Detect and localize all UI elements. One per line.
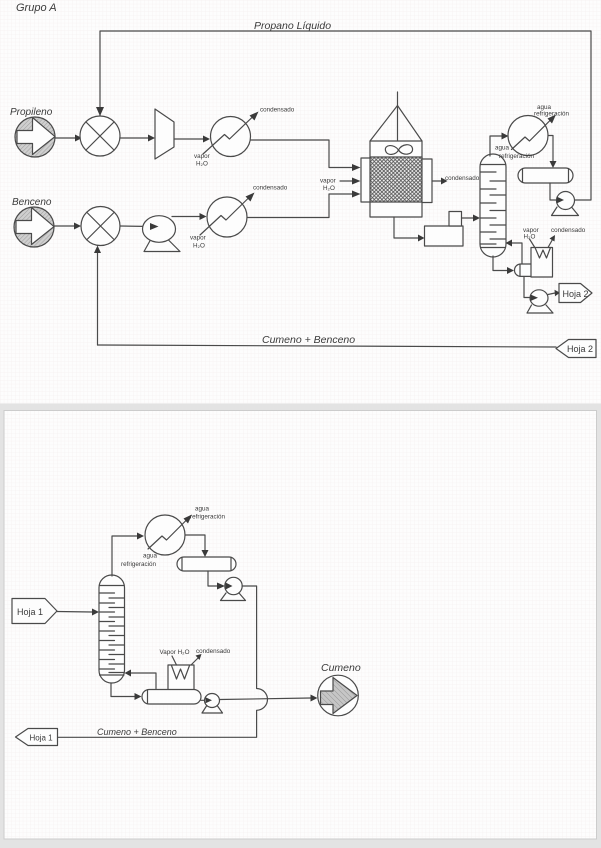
reactor R1 roof: [370, 106, 422, 142]
wire V1 to column T1 feed: [462, 217, 474, 219]
off-page connector Hoja 1 (in): [12, 599, 57, 624]
svg-text:Benceno: Benceno: [12, 197, 52, 208]
wire mixer M1 to compressor K1: [120, 137, 148, 139]
pump P2 stand: [552, 207, 579, 216]
pump P4 stand: [221, 593, 246, 601]
svg-text:Cumeno: Cumeno: [321, 662, 361, 674]
wire product line to Cumeno: [220, 698, 311, 700]
wire recycle into mixer M2 from below: [97, 253, 99, 345]
page 1 sheet: [0, 0, 601, 404]
column T1: [480, 154, 506, 257]
reactor R1 catalyst bed: [370, 157, 422, 202]
feed symbol Benceno: [14, 207, 54, 247]
separator V1: [425, 226, 464, 246]
off-page connector Hoja 2 (bottom right): [556, 340, 596, 358]
pump P1: [143, 216, 176, 243]
svg-text:condensado: condensado: [260, 107, 295, 114]
svg-text:Grupo A: Grupo A: [16, 2, 57, 14]
reactor R1 agitator: [385, 145, 412, 155]
wire cumeno+benceno return line: [98, 345, 557, 347]
svg-text:vapor: vapor: [190, 235, 206, 242]
reflux drum V2: [518, 168, 573, 183]
wire column T1 bottoms to drum V3: [493, 256, 507, 271]
wire reboiler E4 return to column T1: [512, 243, 522, 264]
svg-text:condensado: condensado: [253, 185, 288, 192]
wire benceno to mixer M2: [54, 225, 74, 227]
heat exchanger E2: [207, 197, 247, 237]
svg-text:refrigeración: refrigeración: [499, 153, 534, 160]
reactor R1 body: [370, 141, 422, 217]
svg-text:Hoja 1: Hoja 1: [30, 734, 54, 743]
wire column T2 bottoms to drum V5: [111, 683, 135, 697]
wire compressor K1 to heat exchanger E1: [174, 138, 203, 140]
reboiler E4: [531, 248, 553, 278]
svg-text:Propano Líquido: Propano Líquido: [254, 20, 331, 32]
mixer M2: [81, 207, 120, 246]
wire drum V3 to pump P3: [524, 277, 529, 298]
svg-text:Cumeno + Benceno: Cumeno + Benceno: [97, 727, 177, 737]
svg-text:Cumeno + Benceno: Cumeno + Benceno: [262, 334, 355, 346]
wire condensado out of reactor: [432, 180, 441, 182]
off-page connector Hoja 1 (return, out): [16, 729, 58, 746]
off-page connector Hoja 2 (out): [559, 284, 592, 303]
reboiler E6: [168, 665, 194, 690]
svg-text:refrigeración: refrigeración: [121, 561, 156, 568]
column T2: [99, 575, 125, 683]
separator V1 top box: [449, 212, 462, 227]
svg-text:agua: agua: [195, 506, 210, 513]
reactor R1 shaft: [397, 92, 399, 148]
wire drum V5 to pump P5: [201, 699, 205, 701]
mixer M1: [80, 116, 120, 156]
wire propileno to mixer M1: [55, 137, 75, 139]
svg-text:condensado: condensado: [551, 227, 586, 234]
pump P5 stand: [202, 706, 223, 713]
svg-text:Hoja 2: Hoja 2: [567, 344, 593, 354]
svg-text:vapor: vapor: [194, 153, 210, 160]
svg-text:condensado: condensado: [445, 175, 480, 182]
svg-text:H₂O: H₂O: [323, 185, 335, 192]
wire E1 to reactor R1: [251, 140, 353, 168]
svg-text:condensado: condensado: [196, 648, 231, 655]
reactor R1 left flange: [361, 158, 370, 202]
pump P5: [205, 694, 220, 708]
wire condenser E3 to reflux drum V2: [548, 136, 553, 162]
svg-text:refrigeración: refrigeración: [190, 514, 225, 521]
svg-text:agua: agua: [495, 145, 510, 152]
wire pump P4 down with crossover hop to Hoja 1 return: [58, 586, 268, 737]
wire column T2 top to condenser E5: [112, 536, 137, 576]
wire pump P3 to Hoja 2: [548, 293, 555, 295]
wire drum V4 to pump P4: [208, 571, 217, 586]
page 2 sheet: [4, 411, 597, 840]
wire mixer M2 to pump P1: [120, 225, 151, 228]
svg-text:agua: agua: [143, 553, 158, 560]
wire Hoja1 to column T2: [57, 611, 92, 614]
bottoms drum V5: [142, 690, 201, 705]
wire reactor bottom to separator V1: [394, 217, 418, 238]
svg-text:Vapor H₂O: Vapor H₂O: [160, 649, 190, 656]
heat exchanger E1: [211, 117, 251, 157]
reactor R1 right flange: [422, 159, 432, 203]
pump P2: [557, 192, 575, 210]
pump P3 stand: [527, 305, 553, 313]
column T2 trays: [100, 593, 115, 669]
arrowhead into mixer M1: [96, 107, 104, 116]
wire condenser E5 to reflux drum V4: [185, 535, 205, 550]
svg-text:H₂O: H₂O: [193, 243, 205, 250]
svg-text:vapor: vapor: [320, 178, 336, 185]
svg-text:Propileno: Propileno: [10, 107, 53, 118]
wire vapor into reactor R1: [340, 180, 352, 182]
pump P4: [225, 577, 242, 594]
reboiler drum V3: [514, 264, 533, 276]
reflux drum V4: [177, 557, 236, 571]
wire reboiler E6 return to column T2: [131, 673, 156, 689]
wire pump P1 to heat exchanger E2: [172, 216, 200, 218]
svg-text:refrigeración: refrigeración: [534, 111, 569, 118]
condenser E5: [145, 515, 185, 555]
svg-text:Hoja 2: Hoja 2: [563, 289, 589, 299]
wire propane recycle top line: [100, 31, 591, 200]
svg-text:H₂O: H₂O: [196, 161, 208, 168]
product symbol Cumeno: [318, 675, 359, 716]
wire E2 to reactor R1: [247, 194, 352, 218]
wire drum V2 to pump P2: [550, 183, 556, 200]
condenser E3: [508, 116, 548, 156]
wire column T1 top to condenser E3: [490, 136, 502, 156]
svg-text:Hoja 1: Hoja 1: [17, 607, 43, 617]
column T1 trays: [481, 172, 497, 244]
feed symbol Propileno: [15, 117, 55, 157]
compressor K1: [155, 109, 174, 159]
pump P1 stand: [144, 239, 180, 252]
pump P3: [530, 290, 548, 306]
